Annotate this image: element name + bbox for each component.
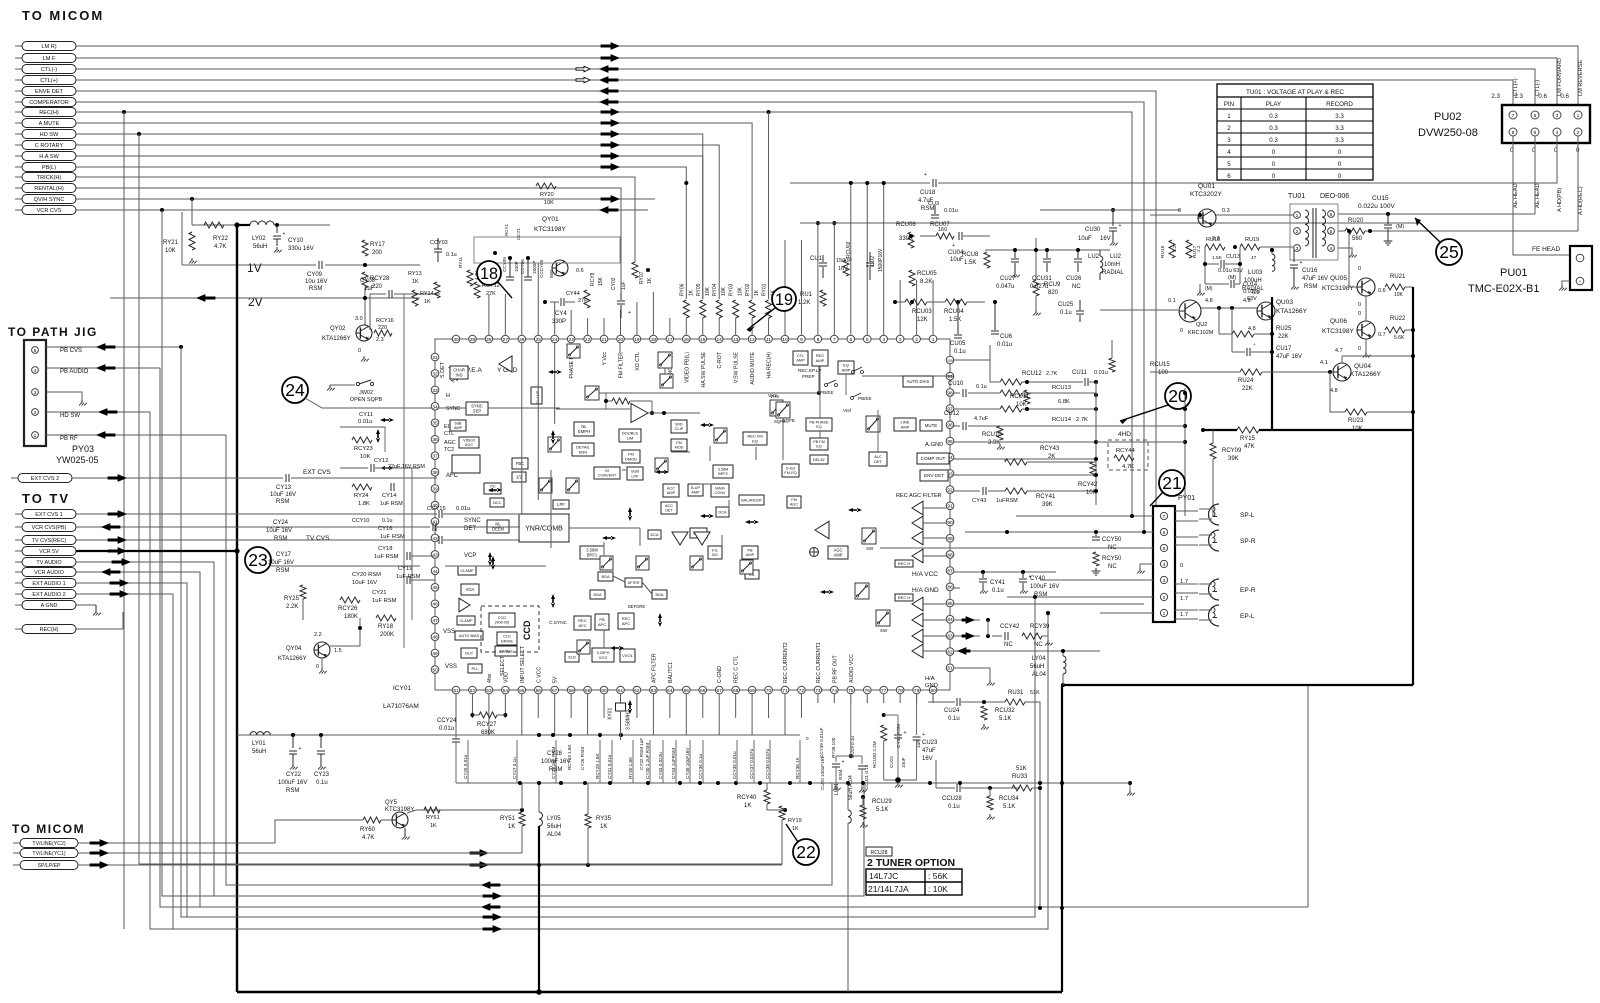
svg-text:+: +	[1119, 223, 1122, 229]
svg-text:2: 2	[1163, 595, 1166, 601]
svg-text:BAL/TC1: BAL/TC1	[668, 662, 674, 683]
junction pin84	[986, 618, 990, 622]
svg-text:QU03: QU03	[1276, 299, 1293, 306]
circled 20 with pointer	[1165, 383, 1191, 409]
svg-text:RCU8: RCU8	[962, 252, 979, 258]
svg-text:TMC-E02X-B1: TMC-E02X-B1	[1468, 283, 1540, 295]
wire pin93 row ENV DET	[954, 474, 1096, 476]
capacitor CY24 10uF RSM	[432, 523, 434, 531]
svg-text:LY01: LY01	[252, 741, 266, 747]
svg-text:CY41: CY41	[990, 580, 1006, 586]
resistor RCU30 2.2M	[882, 713, 886, 717]
svg-text:21/14L7JA: 21/14L7JA	[868, 884, 909, 894]
svg-text:1K: 1K	[600, 824, 607, 830]
svg-text:CTL(-): CTL(-)	[1535, 80, 1541, 96]
svg-text:CCY35 0.01u: CCY35 0.01u	[732, 751, 737, 779]
svg-text:4.8: 4.8	[1248, 326, 1256, 332]
svg-text:AMP: AMP	[691, 491, 700, 495]
svg-text:0.3: 0.3	[1269, 125, 1278, 132]
svg-text:0.1u: 0.1u	[1060, 310, 1072, 316]
wire PB CVS	[46, 346, 181, 348]
svg-text:AUDIO VCC: AUDIO VCC	[849, 654, 855, 683]
svg-text:47: 47	[1251, 255, 1257, 261]
svg-text:VCR CVS: VCR CVS	[37, 208, 62, 214]
vertical drop x=139 cont	[139, 820, 782, 864]
net label EXT AUDIO 1	[15, 582, 22, 584]
svg-text:QY04: QY04	[286, 646, 302, 652]
arrow on COMPERATOR line	[600, 99, 618, 106]
svg-text:100P: 100P	[514, 261, 519, 272]
svg-text:81: 81	[947, 666, 953, 672]
wire TU01 pin4 ground	[1338, 248, 1352, 252]
svg-text:48: 48	[432, 635, 438, 641]
svg-text:CY43: CY43	[972, 498, 987, 504]
wires top pins up stubs	[488, 294, 490, 335]
capacitor CY13 10uF 16V RSM	[285, 474, 287, 482]
block 3.20FH VCO	[592, 648, 614, 662]
capacitor CU26 NC	[1077, 250, 1079, 258]
svg-text:RCY50: RCY50	[1102, 556, 1122, 562]
svg-text:MUTE: MUTE	[925, 423, 938, 428]
svg-text:87: 87	[947, 569, 953, 575]
svg-text:4.8: 4.8	[1205, 298, 1213, 304]
svg-text:34: 34	[432, 404, 438, 410]
svg-text:H/A GND: H/A GND	[912, 587, 939, 594]
block Y/C MIX	[484, 483, 501, 494]
arrow PB RF	[97, 432, 115, 439]
svg-text:0.1u: 0.1u	[382, 518, 393, 524]
svg-text:SEP: SEP	[473, 409, 482, 414]
svg-text:3: 3	[899, 337, 902, 343]
svg-text:1uF RSM: 1uF RSM	[396, 574, 421, 580]
svg-text:GND: GND	[925, 683, 938, 689]
svg-text:RCU02: RCU02	[846, 241, 852, 258]
svg-text:CY34 1uFRSM: CY34 1uFRSM	[671, 748, 676, 779]
svg-text:100uF 16V: 100uF 16V	[541, 759, 570, 765]
svg-text:XO CTL: XO CTL	[635, 352, 641, 371]
svg-text:CY16: CY16	[378, 526, 393, 532]
svg-text:B-UP: B-UP	[691, 486, 701, 490]
resistor RCY12 27K	[474, 282, 480, 298]
resistor RCY50 NC	[1093, 552, 1099, 566]
arrow on A MUTE line	[601, 120, 619, 127]
svg-text:CCY50: CCY50	[1102, 537, 1122, 543]
svg-text:19: 19	[775, 291, 793, 309]
svg-text:2.2K: 2.2K	[286, 604, 298, 610]
svg-text:W/D: W/D	[675, 423, 683, 427]
resistor RCU05 8.2K	[909, 270, 915, 286]
capacitor CCY15 0.01u	[438, 510, 440, 518]
svg-text:PB RF OUT: PB RF OUT	[832, 655, 838, 683]
svg-text:16V: 16V	[1100, 236, 1111, 242]
resistor RCU04 1.5K	[945, 299, 967, 305]
svg-text:27K: 27K	[486, 291, 496, 297]
svg-text:0: 0	[1178, 208, 1181, 214]
svg-text:68: 68	[733, 688, 739, 694]
wire TV/LINE(YC1)	[78, 852, 522, 854]
svg-text:RCY1: RCY1	[504, 223, 509, 236]
switch line amp	[866, 416, 880, 432]
vertical drop x=150 HD SW	[150, 412, 1048, 929]
svg-text:H/A VCC: H/A VCC	[912, 571, 938, 578]
junction RY06 top	[684, 181, 688, 185]
svg-text:RY38 100: RY38 100	[831, 737, 836, 758]
op-amp triangles bank 2	[912, 597, 923, 611]
svg-text:RY35: RY35	[596, 816, 612, 822]
wire A.GND ext	[1096, 441, 1185, 443]
svg-text:RY19: RY19	[788, 818, 802, 824]
svg-text:QV/H SYNC: QV/H SYNC	[34, 197, 65, 203]
svg-text:H: H	[446, 393, 450, 399]
svg-text:RY18: RY18	[378, 624, 394, 630]
block REC AFC	[574, 616, 591, 630]
inductor LY04 56uH AL04	[1062, 651, 1064, 656]
wire pin3 stub to ground	[46, 392, 82, 400]
svg-text:PB PHASE: PB PHASE	[810, 421, 829, 425]
resistor RY22 4.7K	[204, 222, 224, 228]
capacitor CU3 0.01u	[934, 205, 936, 214]
svg-text:61: 61	[618, 688, 624, 694]
vertical drop x=226 PB RF	[226, 435, 832, 885]
head SP-L	[1209, 504, 1220, 525]
net label TRICK(H)	[15, 176, 22, 178]
switch sw23 area	[655, 458, 668, 472]
svg-text:65: 65	[684, 688, 690, 694]
svg-text:RY05: RY05	[696, 283, 702, 296]
svg-text:AGC: AGC	[790, 503, 798, 507]
block TIMING	[495, 646, 517, 656]
svg-text:15K: 15K	[598, 276, 604, 286]
arrow bottom line y=865	[470, 862, 488, 869]
svg-text:AE HEAD: AE HEAD	[1535, 183, 1541, 208]
block DELAY	[810, 455, 828, 464]
svg-text:PLL: PLL	[471, 666, 479, 671]
block 3.58M BPF2	[713, 465, 733, 478]
svg-text:92: 92	[947, 488, 953, 494]
wire pin85 row	[954, 603, 1144, 605]
svg-text:0.01u: 0.01u	[1094, 370, 1108, 376]
junction RY51 top	[520, 808, 524, 812]
wire LM R) to PU02 LM REVERSE	[76, 46, 1578, 105]
svg-text:RU24: RU24	[1238, 378, 1254, 384]
svg-text:0: 0	[1358, 302, 1361, 308]
wire EXT AUDIO 2	[76, 594, 173, 929]
svg-text:1K: 1K	[424, 299, 431, 305]
svg-text:20: 20	[618, 337, 624, 343]
svg-text:CU13: CU13	[1226, 254, 1240, 260]
svg-text:CU3: CU3	[928, 201, 939, 207]
capacitor CCU31 0.027u	[1046, 250, 1048, 258]
svg-text:0: 0	[1338, 173, 1342, 180]
resistor RY17 200	[362, 240, 368, 256]
wire PY01 pin1 line	[1100, 612, 1153, 614]
svg-text:TO PATH JIG: TO PATH JIG	[8, 325, 98, 339]
wire thick bottom bus y=992	[237, 991, 1062, 994]
svg-text:CY24: CY24	[273, 520, 289, 526]
svg-text:RADIAL: RADIAL	[1102, 270, 1124, 276]
wire qu04 collector	[1341, 356, 1343, 363]
block PB PHASE EQ	[806, 418, 832, 431]
svg-text:13: 13	[733, 337, 739, 343]
svg-text:100uF 16V: 100uF 16V	[278, 780, 307, 786]
wire audio interior 1	[819, 366, 821, 418]
wire PY01 pin7 line	[1016, 515, 1153, 517]
wire interior balancer	[728, 500, 730, 509]
wire head SP-L lines	[1175, 510, 1198, 512]
op-amp triangles bank 1	[912, 501, 923, 515]
hollow arrow on CTL(+)	[576, 77, 590, 83]
wire HD SW	[46, 411, 150, 413]
svg-text:LY02: LY02	[252, 236, 266, 242]
arrow on PB(L) line	[601, 164, 619, 171]
block OUT	[461, 648, 477, 658]
capacitor CY12 22uF 16V RSM	[370, 464, 372, 472]
wire cy08 vertical	[369, 294, 371, 330]
svg-text:RU31: RU31	[1008, 690, 1024, 696]
svg-text:1: 1	[1227, 113, 1231, 120]
block PLL	[468, 664, 482, 673]
wire pin98 row CU10	[954, 392, 960, 394]
resistor RY24 1.8K	[352, 484, 372, 490]
svg-text:32: 32	[432, 371, 438, 377]
transistor QU03 KTA1266Y	[1257, 302, 1275, 320]
svg-text:82: 82	[947, 650, 953, 656]
svg-text:+: +	[628, 310, 631, 316]
IC right pins 100..81	[946, 356, 954, 364]
svg-text:RSM: RSM	[1304, 284, 1317, 290]
block CLAMP rotated mid	[531, 387, 542, 404]
svg-text:CU1: CU1	[810, 256, 823, 262]
svg-text:59: 59	[585, 688, 591, 694]
wire interior bpf	[603, 542, 605, 556]
net label CTL(-)	[15, 68, 22, 70]
block ACC AMP	[663, 484, 679, 497]
block SLD	[565, 652, 579, 662]
svg-text:EXT CVS 1: EXT CVS 1	[35, 512, 62, 518]
svg-text:A MUTE: A MUTE	[39, 121, 60, 127]
svg-text:CTL: CTL	[797, 354, 804, 358]
svg-text:2 TUNER OPTION: 2 TUNER OPTION	[867, 857, 955, 869]
wire interior eqv	[755, 447, 757, 460]
svg-text:ACC: ACC	[665, 504, 673, 508]
capacitor CY22 100uF 16V RSM	[292, 735, 294, 748]
svg-text:ICY01: ICY01	[393, 685, 411, 692]
arrow on REC(H) line	[601, 109, 619, 116]
capacitor CU14 0.033u 63V (M)	[1230, 280, 1232, 288]
wire thick x=1062 down	[1061, 685, 1063, 992]
net label PB(L)	[15, 166, 22, 168]
capacitor CY02 1uF	[620, 292, 622, 300]
svg-text:A HD(REC): A HD(REC)	[1578, 186, 1584, 215]
svg-text:21: 21	[601, 337, 607, 343]
resistor RY25 2.2K	[300, 585, 306, 599]
svg-text:AUTO DIAS: AUTO DIAS	[907, 379, 930, 384]
svg-text:200: 200	[372, 250, 383, 256]
svg-text:REC CURRENT1: REC CURRENT1	[816, 642, 822, 683]
wire REC(H) lower	[76, 628, 123, 630]
svg-text:QU04: QU04	[1354, 363, 1371, 370]
wire thick QU03 down x=1272	[1271, 297, 1273, 430]
resistor RCY42 10K	[1090, 462, 1096, 476]
circled 23	[245, 547, 271, 573]
svg-text:CCD: CCD	[498, 616, 506, 620]
svg-text:FM-EQ: FM-EQ	[784, 471, 796, 475]
svg-text:51: 51	[453, 688, 459, 694]
block VGA	[461, 584, 479, 595]
svg-text:AL04: AL04	[1032, 672, 1047, 678]
pointer from 22 down	[786, 824, 798, 842]
svg-text:90: 90	[947, 520, 953, 526]
svg-text:0: 0	[806, 736, 809, 741]
block KIL	[745, 570, 759, 579]
circled 22	[793, 839, 819, 865]
svg-text:56uH: 56uH	[252, 749, 266, 755]
svg-text:AGC: AGC	[444, 440, 456, 446]
resistor RCU15 100	[1109, 358, 1115, 372]
svg-text:CCU28: CCU28	[942, 796, 962, 802]
svg-text:6: 6	[1163, 530, 1166, 536]
junction dots rcu net	[1094, 380, 1098, 384]
svg-text:25: 25	[536, 337, 542, 343]
net label REC(H)	[15, 628, 22, 630]
block PHASE sw	[658, 352, 672, 368]
svg-text:CY31 0.01u: CY31 0.01u	[607, 754, 612, 779]
svg-text:LM R): LM R)	[41, 44, 56, 50]
svg-text:QU2: QU2	[1196, 322, 1207, 328]
wire cu30 top	[1040, 209, 1180, 211]
wire rcu12 row	[1022, 381, 1083, 383]
capacitor CCY50 NC	[1094, 530, 1098, 534]
svg-text:: 10K: : 10K	[928, 884, 948, 894]
svg-text:LM REVERSE: LM REVERSE	[1578, 60, 1584, 96]
svg-text:3.3: 3.3	[1335, 125, 1344, 132]
block FM AGC	[787, 496, 801, 508]
svg-text:0: 0	[1272, 161, 1276, 168]
wire A GND to ground	[76, 604, 96, 606]
switch SW A	[862, 528, 876, 544]
svg-text:22: 22	[796, 842, 816, 862]
svg-text:CY02: CY02	[611, 277, 617, 290]
wire interior pin23 down	[619, 343, 621, 352]
svg-text:AMP: AMP	[667, 491, 676, 495]
svg-text:3.3: 3.3	[1335, 113, 1344, 120]
svg-text:AMP: AMP	[796, 359, 805, 363]
svg-text:2.2: 2.2	[1172, 245, 1178, 252]
amp triangle gnd	[499, 356, 512, 372]
svg-text:8: 8	[1512, 130, 1515, 136]
svg-text:74: 74	[832, 688, 838, 694]
wire bus y=735	[237, 734, 800, 736]
svg-text:10uF 16V: 10uF 16V	[352, 580, 377, 586]
svg-text:RU20: RU20	[1348, 218, 1364, 224]
svg-text:RU19: RU19	[1245, 237, 1259, 243]
svg-text:8.2K: 8.2K	[920, 279, 932, 285]
svg-text:86: 86	[947, 585, 953, 591]
svg-text:AMP: AMP	[901, 424, 910, 429]
svg-text:CCY38 0.047u: CCY38 0.047u	[765, 748, 770, 779]
svg-text:10uF 16V: 10uF 16V	[270, 492, 296, 498]
svg-text:55: 55	[519, 688, 525, 694]
svg-text:BGA: BGA	[655, 593, 663, 597]
svg-text:PB/EE: PB/EE	[858, 396, 872, 401]
svg-text:EXT CVS: EXT CVS	[303, 469, 331, 476]
block BGA 2	[590, 590, 605, 599]
svg-text:RSM: RSM	[276, 568, 289, 574]
capacitor CY08 1uF	[388, 290, 390, 298]
svg-text:KRC102M: KRC102M	[1188, 330, 1214, 336]
svg-text:CTL(-): CTL(-)	[41, 67, 57, 73]
svg-text:4.7K: 4.7K	[214, 244, 226, 250]
svg-text:0: 0	[1358, 266, 1361, 272]
svg-text:OUT: OUT	[465, 651, 474, 656]
svg-text:CY35 10uF16V: CY35 10uF16V	[685, 747, 690, 779]
svg-text:0.1u: 0.1u	[992, 588, 1004, 594]
svg-text:1uF: 1uF	[380, 534, 390, 540]
resistor RY61 1K	[424, 807, 440, 813]
svg-text:PB AUDIO: PB AUDIO	[60, 369, 89, 375]
svg-text:DCA: DCA	[718, 510, 726, 514]
wire VCR 5V thick	[76, 550, 237, 552]
svg-text:200K: 200K	[380, 632, 394, 638]
svg-text:1.5: 1.5	[334, 648, 342, 654]
svg-text:17: 17	[667, 337, 673, 343]
svg-text:CY33 0.022u: CY33 0.022u	[658, 752, 663, 779]
block 6dB AMP	[450, 420, 466, 431]
svg-text:RY04: RY04	[712, 283, 718, 296]
svg-text:RCY39: RCY39	[1030, 624, 1050, 630]
svg-text:RY60: RY60	[360, 827, 376, 833]
block PB APC	[595, 614, 609, 630]
wire pin84 row	[954, 619, 980, 621]
svg-text:0.1u: 0.1u	[446, 252, 457, 258]
svg-text:RENTAL(H): RENTAL(H)	[34, 186, 64, 192]
svg-text:RY02: RY02	[745, 283, 751, 296]
svg-text:PB RF: PB RF	[60, 436, 78, 442]
block ENV DET	[920, 470, 948, 481]
svg-text:APC: APC	[622, 621, 630, 626]
block DOUBLE LIM	[619, 429, 641, 442]
svg-text:RCY26: RCY26	[338, 606, 358, 612]
svg-text:24: 24	[552, 337, 558, 343]
svg-text:AFTER: AFTER	[628, 581, 640, 585]
svg-text:330u 16V: 330u 16V	[288, 246, 314, 252]
svg-text:TIMING: TIMING	[499, 649, 512, 653]
IC top pins 30..1	[452, 335, 460, 343]
svg-text:CY44: CY44	[566, 291, 580, 297]
svg-text:AL04: AL04	[547, 832, 562, 838]
net label REC(H)	[15, 111, 22, 113]
net label A GND	[15, 604, 22, 606]
block REC AMP	[812, 350, 828, 366]
svg-text:0.7: 0.7	[1378, 332, 1386, 338]
block double lim sw	[660, 374, 673, 388]
svg-text:2.3: 2.3	[376, 337, 384, 343]
svg-text:1800P: 1800P	[532, 261, 537, 274]
svg-text:39K: 39K	[1042, 502, 1053, 508]
resistor RY05 10K	[700, 300, 706, 318]
svg-text:PB CVS: PB CVS	[60, 348, 82, 354]
svg-text:SW: SW	[880, 628, 888, 633]
resistor RY18 200K	[376, 615, 396, 621]
wire pin95 row A.GND	[954, 441, 1096, 443]
wire VCR CVS(PB)	[76, 526, 430, 528]
svg-text:CU18: CU18	[920, 190, 936, 196]
net label ENVE DET	[15, 90, 22, 92]
svg-text:CU17: CU17	[1276, 346, 1292, 352]
svg-text:ACC: ACC	[667, 487, 675, 491]
svg-text:96: 96	[947, 423, 953, 429]
svg-text:RECORD: RECORD	[1326, 101, 1353, 108]
